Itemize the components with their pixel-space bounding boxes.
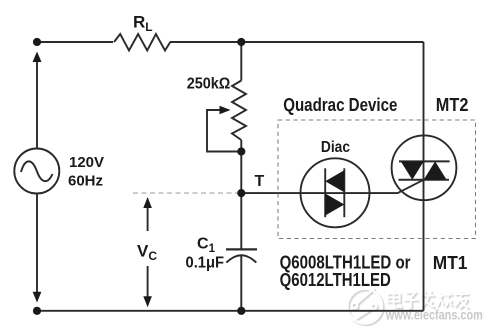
svg-text:Quadrac Device: Quadrac Device xyxy=(283,95,397,115)
triac bottom bar xyxy=(399,179,450,181)
triac left triangle (down) xyxy=(401,161,424,179)
svg-text:Q6012LTH1LED: Q6012LTH1LED xyxy=(280,270,391,290)
gate wire diac to triac xyxy=(370,180,424,193)
ac source sine xyxy=(21,161,53,181)
triac top bar xyxy=(399,160,450,162)
watermark chinese chars white xyxy=(388,291,469,309)
triac right triangle (up) xyxy=(424,161,447,179)
svg-text:MT1: MT1 xyxy=(433,253,468,273)
node dot bottom left xyxy=(33,307,41,315)
diac lower triangle xyxy=(325,194,344,216)
quadrac dashed box xyxy=(278,120,476,239)
node dot top middle xyxy=(237,38,245,46)
svg-text:www.elecfans.com: www.elecfans.com xyxy=(385,308,483,323)
svg-text:MT2: MT2 xyxy=(436,95,469,115)
wiper wire loop xyxy=(207,110,241,152)
wire top left segment xyxy=(37,41,113,43)
node dot top left xyxy=(33,38,41,46)
diac left bar xyxy=(324,168,326,217)
svg-text:Diac: Diac xyxy=(321,139,350,156)
VC arrow down xyxy=(143,266,152,307)
diac upper triangle xyxy=(325,170,344,192)
svg-text:T: T xyxy=(255,173,265,190)
node T dot xyxy=(237,189,245,197)
wire T to diac xyxy=(241,192,300,194)
dashed line from VC to node T xyxy=(133,192,237,194)
node dot bottom middle xyxy=(237,307,245,315)
VC arrow up xyxy=(143,197,152,231)
capacitor C1 plates xyxy=(226,249,257,262)
ac source V1 circle xyxy=(14,149,59,194)
wire through diac xyxy=(300,192,369,194)
wire bottom xyxy=(37,310,424,312)
svg-text:120V: 120V xyxy=(69,154,104,171)
diac circle xyxy=(301,158,370,227)
diac right bar xyxy=(343,168,345,217)
wire T to capacitor top plate xyxy=(240,193,242,249)
watermark icon shadow xyxy=(349,290,384,325)
potentiometer 250k zigzag xyxy=(232,81,246,141)
wire left top (with arrow) xyxy=(36,61,38,148)
arrow down at bottom of source wire xyxy=(33,292,42,303)
resistor RL xyxy=(114,34,170,51)
wire pot bottom to node xyxy=(240,140,242,152)
triac Q1 circle xyxy=(392,135,457,200)
capacitor C1 bottom wire xyxy=(240,255,242,310)
wire right vertical MT2 line xyxy=(423,42,425,311)
svg-text:60Hz: 60Hz xyxy=(68,173,103,190)
svg-text:250kΩ: 250kΩ xyxy=(187,76,231,93)
wire middle vertical from top to potentiometer xyxy=(240,42,242,81)
wiper arrowhead xyxy=(220,106,231,115)
wire node to T node xyxy=(240,152,242,194)
svg-text:0.1μF: 0.1μF xyxy=(186,254,225,271)
wire left bottom (with arrow) xyxy=(36,194,38,293)
wire top right segment xyxy=(170,41,424,43)
watermark icon white xyxy=(348,288,383,323)
arrow up at top of source wire xyxy=(33,52,42,63)
node dot pot bottom xyxy=(237,147,245,155)
watermark chinese chars shadow xyxy=(389,292,470,310)
